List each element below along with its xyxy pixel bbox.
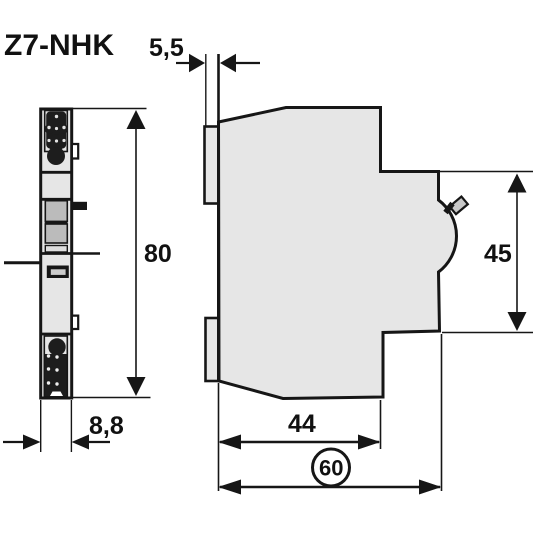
svg-text:45: 45 <box>484 240 512 268</box>
svg-text:44: 44 <box>288 410 316 438</box>
svg-text:80: 80 <box>144 240 172 268</box>
svg-text:Z7-NHK: Z7-NHK <box>4 29 114 62</box>
svg-text:60: 60 <box>319 456 343 481</box>
svg-text:8,8: 8,8 <box>89 412 124 440</box>
svg-text:5,5: 5,5 <box>149 34 184 62</box>
